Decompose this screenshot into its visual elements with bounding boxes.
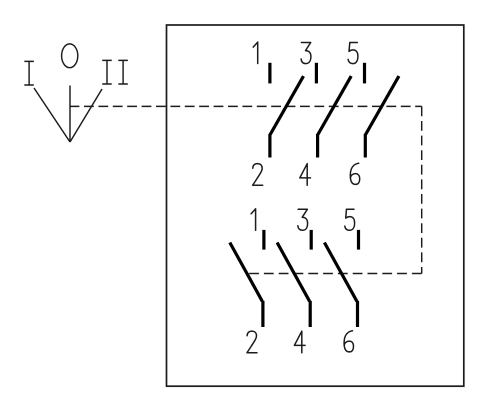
terminal 2 lead	[268, 134, 271, 158]
pin label 3 (bottom group)	[298, 209, 308, 230]
terminal 4 lead (bottom group)	[309, 301, 312, 327]
terminal 3 fixed contact tick	[315, 63, 318, 84]
terminal 1 fixed contact tick (bottom group)	[262, 230, 265, 250]
pin label 1 (bottom group)	[251, 209, 256, 230]
control linkage dashed wire: horizontal run from lever to right side	[70, 105, 422, 107]
contact blade 5-6	[366, 76, 399, 134]
terminal 1 fixed contact tick	[268, 63, 271, 84]
switch enclosure rectangle	[167, 25, 464, 386]
contact blade 3-4 (bottom group)	[277, 243, 310, 302]
position label I	[25, 61, 33, 85]
contact blade 1-2	[270, 76, 303, 134]
pin label 5 (top group)	[348, 43, 358, 64]
pin label 4 (bottom group)	[294, 331, 305, 353]
pin label 6 (top group)	[350, 163, 359, 184]
control linkage dashed wire: vertical run on right side	[421, 106, 423, 273]
pin label 6 (bottom group)	[344, 331, 353, 352]
pin label 1 (top group)	[253, 42, 258, 63]
terminal 5 fixed contact tick	[363, 63, 366, 84]
pin label 2 (bottom group)	[247, 331, 257, 353]
selector lever: arm to position I	[34, 88, 70, 142]
control linkage dashed wire: horizontal run to bottom contact group	[249, 273, 422, 275]
terminal 4 lead	[316, 134, 319, 158]
terminal 2 lead (bottom group)	[261, 301, 264, 327]
terminal 6 lead	[364, 134, 367, 158]
selector lever: arm to position II	[70, 89, 102, 142]
terminal 6 lead (bottom group)	[356, 301, 359, 327]
pin label 5 (bottom group)	[345, 209, 355, 230]
terminal 5 fixed contact tick (bottom group)	[357, 230, 360, 250]
position label O	[62, 44, 78, 68]
position label II	[103, 60, 128, 84]
contact blade 5-6 (bottom group)	[324, 243, 357, 302]
pin label 3 (top group)	[301, 43, 311, 64]
contact blade 1-2 (bottom group)	[230, 243, 262, 302]
pin label 4 (top group)	[300, 164, 311, 186]
contact blade 3-4	[318, 76, 351, 134]
terminal 3 fixed contact tick (bottom group)	[310, 230, 313, 250]
selector lever: stem to position O	[69, 86, 71, 143]
pin label 2 (top group)	[253, 164, 263, 186]
